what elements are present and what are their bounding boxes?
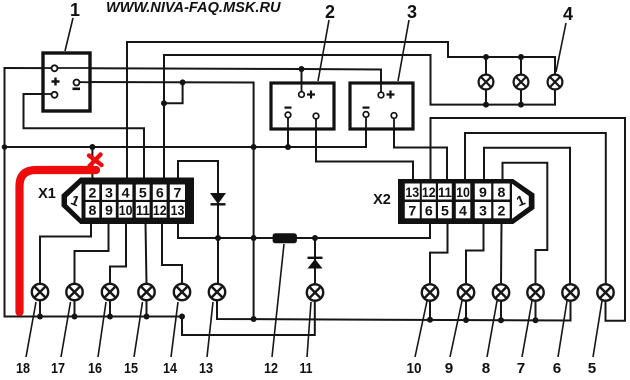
pointer label 4	[556, 23, 566, 72]
svg-text:6: 6	[425, 204, 433, 220]
svg-text:3: 3	[105, 186, 113, 202]
svg-text:4: 4	[122, 186, 130, 202]
junction center vertical on y238 line	[251, 235, 257, 241]
wire X2 pin5 to lamp10	[430, 223, 448, 285]
svg-text:6: 6	[553, 360, 561, 377]
wire X1 pin9 to lamp17	[75, 223, 109, 284]
diode VD1 (near X1)	[210, 193, 226, 204]
junction center vertical on minus bus	[251, 144, 257, 150]
junction jog on battery minus line	[180, 79, 186, 85]
wire lamp8 stub	[500, 300, 502, 320]
svg-text:15: 15	[124, 360, 138, 377]
svg-text:8: 8	[89, 203, 97, 219]
wire box3 plus drop	[380, 70, 382, 96]
wire battery minus to center vertical	[77, 82, 254, 319]
junction lamp14 on bus	[179, 314, 185, 320]
junction lamp16 on bus	[107, 314, 113, 320]
X1 pin cells	[86, 185, 186, 218]
wire X2 pin2 to lamp8	[500, 223, 503, 285]
svg-text:11: 11	[136, 203, 150, 219]
pointer label 5	[593, 301, 602, 357]
pointer label 3	[398, 20, 409, 81]
pointer label 9	[450, 301, 462, 357]
svg-text:7: 7	[408, 204, 416, 220]
wire box2 plus drop	[301, 69, 303, 94]
top lamp b	[514, 75, 529, 90]
X1 tip white area	[67, 183, 82, 218]
lamp 14	[174, 284, 190, 300]
junction top lamp a bottom	[483, 102, 489, 108]
wire left vertical rail	[4, 68, 6, 317]
junction diode chain on y238 line	[215, 235, 221, 241]
wire main middle line y238 X1 pin13 to X2 pin6	[178, 223, 430, 238]
wire box2 output to X2 pin13	[316, 119, 413, 181]
svg-text:9: 9	[105, 203, 113, 219]
svg-text:12: 12	[153, 203, 167, 219]
wire box3 minus to bus	[365, 117, 367, 147]
svg-text:X2: X2	[373, 192, 391, 208]
wire X2 pin10 to lamp5	[465, 133, 606, 285]
wire lamp5 loop to X2 pin12	[431, 118, 626, 321]
lamp 5	[597, 284, 613, 300]
junction left rail on minus bus	[2, 144, 8, 150]
svg-text:4: 4	[563, 4, 573, 24]
junction top lamp b top	[518, 54, 524, 60]
wire box3 output to X2 pin11	[394, 118, 447, 180]
wire X2 pin8 to lamp7	[503, 163, 548, 285]
junction diode VD2 branch on y238 line	[312, 235, 318, 241]
connector X2	[399, 180, 535, 224]
lamp 9	[458, 284, 474, 300]
wire X1 pin7 to diode VD1	[178, 161, 218, 193]
svg-text:18: 18	[16, 360, 30, 377]
svg-text:9: 9	[479, 185, 487, 201]
svg-text:10: 10	[456, 185, 470, 201]
lamp 8	[493, 284, 509, 300]
junction center vertical on right bus	[251, 316, 257, 322]
wire X2 pin3 to lamp9	[466, 223, 484, 285]
pointer label 8	[487, 301, 497, 357]
wire X1 pin2 to bus	[91, 147, 93, 179]
junction lamp7 on bus	[533, 317, 539, 323]
svg-text:13: 13	[199, 360, 213, 377]
junction lamp15 on bus	[144, 314, 150, 320]
svg-text:2: 2	[325, 2, 335, 22]
wire diode VD1 to lamp13	[217, 204, 219, 285]
svg-text:5: 5	[588, 360, 597, 377]
svg-text:10: 10	[407, 360, 422, 377]
svg-text:10: 10	[119, 203, 133, 219]
battery G1 (component 1)	[43, 53, 90, 111]
X2 tip white area	[512, 184, 529, 219]
wire X1 pin12 to lamp14	[162, 223, 182, 284]
wire box2 minus to bus	[287, 117, 289, 147]
wire jog battery minus line to pin6 line	[164, 82, 183, 103]
svg-text:11: 11	[300, 360, 313, 377]
junction lamp9 on bus	[463, 317, 469, 323]
pointer label 14	[171, 302, 178, 357]
component 3 box (gauge unit)	[350, 83, 413, 129]
wire X1 pin6 to top lamps bottom bus	[164, 55, 555, 179]
svg-text:12: 12	[422, 185, 436, 201]
wire top lamp c bottom stub	[554, 90, 556, 105]
wire lamp15 stub	[146, 300, 148, 317]
wire top lamp b bottom stub	[520, 90, 522, 105]
wire X1 pin4 to top lamps top bus	[127, 42, 555, 179]
junction lamp8 on bus	[498, 317, 504, 323]
svg-text:2: 2	[89, 186, 97, 202]
red X mark	[89, 155, 102, 167]
svg-text:4: 4	[459, 204, 467, 220]
connector X1	[62, 178, 194, 224]
pointer label 13	[207, 302, 213, 357]
lamp 15	[138, 284, 154, 300]
wire diode VD2 branch to lamp11	[314, 238, 316, 285]
pointer label 10	[415, 301, 427, 357]
svg-text:13: 13	[405, 185, 419, 201]
wire lamp17 stub	[74, 300, 76, 317]
pointer label 1	[65, 18, 73, 51]
lamp 18	[32, 284, 48, 300]
svg-text:5: 5	[139, 186, 147, 202]
wire X1 pin8 to lamp18	[40, 223, 91, 284]
pointer label 12	[272, 244, 284, 357]
lamp 13	[209, 284, 225, 300]
wire lamp7 stub	[535, 300, 537, 320]
wire lamp10 stub	[429, 300, 431, 320]
junction X1 pin2 on minus bus	[89, 144, 95, 150]
pointer label 16	[98, 302, 106, 357]
diode VD2 (above lamp 11)	[308, 258, 323, 269]
wire ground bus right (net R)	[217, 300, 571, 321]
pointer label 15	[134, 302, 143, 357]
lamp 17	[66, 284, 82, 300]
svg-text:7: 7	[174, 186, 182, 202]
red added wire	[20, 170, 97, 312]
junction jog on pin6 line	[161, 100, 167, 106]
wire lamp18 stub	[39, 300, 41, 317]
wire lamp16 stub	[109, 300, 111, 317]
svg-text:6: 6	[156, 186, 164, 202]
pointer label 7	[522, 301, 532, 357]
top lamp a	[479, 75, 494, 90]
bottom numbers	[16, 360, 597, 377]
svg-text:17: 17	[51, 360, 65, 377]
svg-text:5: 5	[441, 204, 449, 220]
wire top lamp a bottom stub	[485, 90, 487, 105]
lamp 10	[422, 284, 438, 300]
svg-text:16: 16	[88, 360, 102, 377]
junction top lamp b bottom	[518, 102, 524, 108]
wire top lamp a top stub	[485, 57, 487, 75]
junction top lamp a top	[483, 54, 489, 60]
wire battery plus feed line to boxes 2 and 3	[5, 68, 382, 70]
lamp 6	[562, 284, 578, 300]
lamp 11	[307, 284, 323, 300]
svg-text:8: 8	[482, 360, 490, 377]
wire top lamp b top stub	[520, 57, 522, 75]
junction lamp18 on bus	[37, 314, 43, 320]
svg-text:14: 14	[163, 360, 177, 377]
inductor / fuse element 12	[273, 233, 297, 243]
svg-text:3: 3	[479, 204, 487, 220]
top lamp c	[548, 75, 563, 90]
wire battery lower terminal to X1 pin5	[24, 94, 145, 179]
wire X1 pin11 to lamp15	[146, 223, 147, 284]
wire lamp9 stub	[465, 300, 467, 320]
junction box2 minus on bus	[285, 144, 291, 150]
svg-text:13: 13	[171, 203, 185, 219]
pointer label 6	[558, 301, 567, 357]
svg-text:7: 7	[517, 360, 525, 377]
component 2 box (voltage stabilizer)	[271, 83, 334, 129]
junction box2 plus feed	[299, 66, 305, 72]
lamp 7	[527, 284, 543, 300]
pointer label 11	[307, 302, 311, 357]
junction lamp10 on bus	[427, 317, 433, 323]
svg-text:X1: X1	[38, 186, 56, 202]
lamp 16	[102, 284, 118, 300]
junction lamp17 on bus	[72, 314, 78, 320]
wire X2 pin9 to lamp6	[484, 148, 570, 285]
svg-text:11: 11	[438, 185, 452, 201]
svg-text:8: 8	[498, 185, 506, 201]
wire ground bus left (net L)	[5, 300, 315, 335]
wire X1 pin10 to lamp16	[110, 223, 126, 284]
svg-text:3: 3	[407, 2, 417, 22]
svg-text:2: 2	[498, 204, 506, 220]
svg-text:1: 1	[70, 0, 80, 20]
pointer label 17	[61, 302, 71, 357]
pointer label 2	[318, 20, 329, 81]
svg-text:WWW.NIVA-FAQ.MSK.RU: WWW.NIVA-FAQ.MSK.RU	[106, 0, 281, 16]
svg-text:9: 9	[445, 360, 453, 377]
wire minus bus y147	[5, 146, 367, 148]
pointer label 18	[26, 302, 36, 357]
svg-text:12: 12	[264, 360, 278, 377]
X2 pin cells	[405, 184, 510, 219]
